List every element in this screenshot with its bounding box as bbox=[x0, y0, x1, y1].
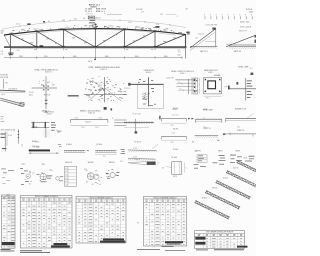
paper background bbox=[0, 0, 256, 256]
svg-text:X: X bbox=[177, 16, 178, 18]
JOIST GIRDER SCHEDULE FOR ROOF title rule bbox=[195, 232, 245, 234]
purlin clip detail title bbox=[171, 70, 194, 75]
svg-text:STRUT S1: STRUT S1 bbox=[203, 128, 210, 130]
TRUSS T-2 MEMBER SCHEDULE title rule bbox=[76, 198, 126, 200]
base plate outer plate bbox=[204, 78, 222, 94]
svg-text:2L: 2L bbox=[112, 118, 114, 120]
column cap lower marks bbox=[45, 100, 48, 104]
annotation text above truss right portion bbox=[136, 8, 189, 18]
svg-text:3/8 PL: 3/8 PL bbox=[1, 94, 6, 96]
left margin small dashes bbox=[1, 116, 5, 122]
knee brace left edge mark bbox=[228, 86, 230, 90]
TRUSS T-1 MEMBER SCHEDULE cell texts bbox=[22, 203, 71, 247]
truss web diagonals left half bbox=[10, 29, 95, 47]
nailer rail line bbox=[124, 121, 154, 123]
left support dark dimension text bbox=[8, 53, 13, 56]
joist summary note bbox=[196, 249, 244, 250]
svg-text:22'-0: 22'-0 bbox=[171, 125, 174, 127]
ridge apex gusset bbox=[212, 28, 216, 30]
camber value smudges left bbox=[62, 18, 85, 21]
note under title bbox=[89, 20, 95, 23]
svg-text:L3x3x1/4: L3x3x1/4 bbox=[198, 33, 204, 35]
svg-text:30'-0: 30'-0 bbox=[73, 56, 77, 58]
truss top chord bbox=[4, 29, 186, 35]
svg-text:25'-0: 25'-0 bbox=[44, 56, 48, 58]
column cap detail column line bbox=[45, 76, 47, 109]
JOIST GIRDER SCHEDULE FOR ROOF column lines bbox=[204, 233, 238, 248]
column base detail title bbox=[144, 69, 154, 74]
beam B5 end tick bbox=[225, 119, 227, 123]
svg-text:2 SP: 2 SP bbox=[141, 12, 144, 14]
heel joint mark scatter bbox=[85, 76, 126, 101]
svg-text:12'-6: 12'-6 bbox=[81, 127, 84, 129]
svg-text:2L3x3 TOP: 2L3x3 TOP bbox=[166, 77, 174, 79]
left end dimension stack bbox=[1, 51, 4, 55]
middle member schedule table bbox=[76, 197, 126, 244]
svg-text:T1: T1 bbox=[27, 223, 29, 225]
TRUSS T-1 MEMBER SCHEDULE outline bbox=[21, 196, 73, 249]
gusset strip leader bbox=[152, 144, 158, 149]
BOLT header rule bbox=[2, 198, 16, 200]
mini schedule box bbox=[65, 166, 77, 186]
TRUSS T-3 MEMBER SCHEDULE header texts bbox=[145, 200, 185, 202]
span dimension line bbox=[4, 57, 183, 59]
heel joint detail title bbox=[89, 66, 121, 71]
JOIST GIRDER SCHEDULE FOR ROOF cell texts bbox=[198, 238, 242, 247]
heel joint beam line bbox=[84, 94, 127, 96]
TRUSS T-1 MEMBER SCHEDULE row lines bbox=[21, 204, 73, 245]
svg-text:DET 6: DET 6 bbox=[173, 176, 177, 178]
joist bar 2 bbox=[205, 190, 241, 210]
svg-text:22 SP: 22 SP bbox=[133, 148, 137, 150]
purlin clip stacked lines bbox=[176, 80, 195, 90]
svg-text:TYP 4: TYP 4 bbox=[41, 164, 45, 166]
column cap detail label bbox=[42, 109, 49, 114]
notes above top chord bbox=[33, 26, 166, 32]
base plate left dimension stack bbox=[199, 79, 200, 91]
TRUSS T-2 MEMBER SCHEDULE outline bbox=[76, 197, 126, 244]
svg-text:2'-6: 2'-6 bbox=[17, 50, 20, 52]
ridge strut arrow bbox=[223, 133, 227, 135]
tie plate dimension arrows bbox=[29, 153, 59, 154]
seat detail right dashes bbox=[51, 122, 56, 131]
isometric brace end box bbox=[20, 103, 24, 106]
knee brace column line bbox=[245, 78, 247, 101]
upper right cluster of splice area bbox=[32, 126, 40, 148]
left margin note bbox=[0, 74, 8, 79]
left weld cluster B bbox=[37, 164, 53, 182]
weld W1 notes bbox=[84, 169, 97, 183]
leader line from title to right bbox=[104, 13, 122, 15]
svg-text:12'-6: 12'-6 bbox=[95, 127, 98, 129]
base plate side view ticks bbox=[191, 78, 193, 94]
truss web verticals bbox=[10, 29, 155, 47]
svg-text:STRUT S2: STRUT S2 bbox=[237, 130, 244, 132]
svg-text:3x3x1/4: 3x3x1/4 bbox=[33, 28, 39, 30]
column base bolt cluster bbox=[138, 79, 154, 92]
splice detail cleats bbox=[1, 134, 7, 150]
TRUSS T-1 MEMBER SCHEDULE title rule bbox=[21, 197, 73, 199]
JOIST GIRDER SCHEDULE FOR ROOF summary dark cell bbox=[195, 237, 205, 240]
column cap detail bolts bbox=[43, 86, 49, 91]
tie plate tick bbox=[21, 144, 23, 147]
svg-text:ARCH 22-0: ARCH 22-0 bbox=[89, 3, 101, 6]
TRUSS T-1 MEMBER SCHEDULE summary dark cell bbox=[54, 243, 68, 245]
svg-text:X X: X X bbox=[120, 161, 122, 163]
svg-text:6x6: 6x6 bbox=[217, 140, 220, 142]
truss top chord inner line bbox=[14, 30, 176, 36]
svg-text:L3: L3 bbox=[204, 118, 206, 120]
svg-text:5'-0: 5'-0 bbox=[156, 24, 159, 26]
svg-text:L3x3 x 0'-6: L3x3 x 0'-6 bbox=[172, 114, 179, 116]
svg-text:3 6 3: 3 6 3 bbox=[206, 98, 210, 100]
BOLT outline bbox=[2, 195, 16, 248]
svg-text:SECT 3-3: SECT 3-3 bbox=[234, 51, 241, 53]
angle stack detail bbox=[112, 118, 127, 126]
svg-text:8: 8 bbox=[216, 15, 217, 17]
plate strip P2 bbox=[64, 150, 85, 152]
isometric brace detail beam bbox=[0, 82, 25, 96]
camber arc tick marks bbox=[20, 19, 170, 27]
eave end detail sloped chord bbox=[226, 35, 256, 47]
seat detail shade wedge bbox=[56, 130, 62, 133]
ridge strut line bbox=[227, 133, 256, 137]
cluster C3 marks bbox=[230, 155, 242, 163]
svg-text:30'-0: 30'-0 bbox=[164, 56, 168, 58]
joist bar group bottom right bbox=[194, 158, 264, 220]
joist bar 3 bbox=[215, 180, 251, 200]
svg-text:x 22: x 22 bbox=[65, 184, 68, 186]
TRUSS T-1 MEMBER SCHEDULE header texts bbox=[22, 199, 71, 201]
svg-text:B2 W8: B2 W8 bbox=[173, 109, 178, 111]
svg-text:x 22: x 22 bbox=[65, 178, 68, 180]
svg-text:BOLTS 3/4: BOLTS 3/4 bbox=[0, 77, 8, 79]
row right edge marks bbox=[121, 149, 126, 154]
JOIST GIRDER SCHEDULE FOR ROOF summary dark cell bbox=[237, 246, 248, 248]
heel joint diagonals bbox=[88, 80, 121, 101]
right end dimension drop line bbox=[185, 47, 187, 59]
bolt list note bbox=[1, 249, 15, 251]
cluster C4 marks bbox=[245, 156, 255, 162]
weld arrow bar left of heel cluster bbox=[68, 95, 79, 96]
tie plate title texts bbox=[34, 147, 40, 149]
svg-text:8'-4: 8'-4 bbox=[103, 156, 106, 158]
svg-text:B4 W8: B4 W8 bbox=[203, 109, 208, 111]
JOIST GIRDER SCHEDULE FOR ROOF row lines bbox=[195, 240, 245, 246]
svg-text:6'-8: 6'-8 bbox=[178, 55, 181, 57]
right end gusset cluster bbox=[186, 32, 189, 35]
right weld cluster bbox=[56, 176, 64, 181]
svg-text:22'-6: 22'-6 bbox=[16, 24, 20, 26]
span dimension ticks bbox=[10, 56, 182, 58]
svg-text:TYP: TYP bbox=[95, 171, 98, 173]
plate strip P2 end arrow bbox=[86, 150, 88, 151]
plate strip P3 bbox=[95, 150, 116, 152]
svg-text:3x3: 3x3 bbox=[163, 30, 166, 32]
svg-text:1'-3: 1'-3 bbox=[1, 54, 4, 56]
column base hatch patch bbox=[142, 92, 150, 99]
svg-text:6: 6 bbox=[199, 84, 200, 86]
svg-text:X2: X2 bbox=[192, 142, 194, 144]
ridge end detail post bbox=[215, 29, 217, 47]
svg-text:PL 6x22: PL 6x22 bbox=[173, 149, 178, 151]
TRUSS T-3 MEMBER SCHEDULE title rule bbox=[144, 198, 187, 200]
svg-text:PL 3/8: PL 3/8 bbox=[29, 92, 33, 94]
TRUSS T-3 MEMBER SCHEDULE summary dark cell bbox=[165, 241, 183, 243]
svg-text:MK P2: MK P2 bbox=[218, 151, 223, 153]
svg-text:W12x19: W12x19 bbox=[85, 122, 91, 124]
svg-text:x 22: x 22 bbox=[65, 174, 68, 176]
left schedule notes below bbox=[20, 250, 50, 253]
svg-text:28LH 22: 28LH 22 bbox=[212, 188, 218, 190]
JOIST GIRDER SCHEDULE FOR ROOF header texts bbox=[198, 234, 243, 236]
TRUSS T-2 MEMBER SCHEDULE summary dark cell bbox=[100, 241, 125, 243]
svg-text:3: 3 bbox=[199, 79, 200, 81]
cluster C2 marks bbox=[213, 155, 226, 165]
left margin weld text scatter bbox=[1, 169, 14, 174]
dash continuation right of tie plate bbox=[58, 144, 62, 147]
BOLT row lines bbox=[2, 202, 16, 245]
gusset strip 2 bbox=[128, 158, 156, 160]
base plate left dim line bbox=[199, 78, 201, 94]
svg-text:PL 3/8x5: PL 3/8x5 bbox=[97, 144, 103, 146]
eave strut hatched bar bbox=[195, 136, 219, 138]
BOLT summary dark cell bbox=[2, 242, 15, 245]
truss bottom chord bbox=[4, 46, 187, 48]
svg-text:14'-0: 14'-0 bbox=[237, 126, 240, 128]
svg-text:SECT B-B: SECT B-B bbox=[239, 109, 246, 111]
weld circle W3 bbox=[110, 172, 115, 177]
svg-text:30'-0: 30'-0 bbox=[105, 56, 109, 58]
svg-text:L3x3: L3x3 bbox=[75, 117, 78, 119]
svg-text:TYP 3: TYP 3 bbox=[21, 164, 25, 166]
svg-text:PL 6x18: PL 6x18 bbox=[172, 157, 177, 159]
svg-text:W10: W10 bbox=[5, 82, 8, 84]
svg-text:5/16: 5/16 bbox=[195, 38, 198, 40]
truss left end diagonal bbox=[4, 35, 10, 47]
bent plate detail rect bbox=[172, 162, 182, 175]
svg-text:8: 8 bbox=[228, 15, 229, 17]
svg-text:B5 W8: B5 W8 bbox=[235, 108, 240, 110]
base plate HSS column section bbox=[208, 81, 216, 89]
plate strip P3 dim line bbox=[95, 154, 116, 156]
BOLT title rule bbox=[2, 196, 16, 198]
beam B1 dimension line bbox=[71, 124, 108, 126]
heel joint scale box bbox=[104, 107, 107, 110]
center dimension drop line bbox=[94, 47, 96, 60]
seat detail stem bbox=[45, 128, 47, 138]
svg-text:3'-4: 3'-4 bbox=[178, 49, 181, 51]
svg-text:x 22: x 22 bbox=[65, 171, 68, 173]
joist summary table bbox=[195, 231, 248, 249]
weld circle W1 bbox=[87, 173, 94, 180]
purlin spacing ticks top right bbox=[205, 16, 252, 19]
seat detail title bbox=[45, 112, 54, 116]
bolt column detail bbox=[18, 129, 19, 144]
span dimension texts bbox=[19, 56, 168, 58]
base plate plan title bbox=[204, 69, 218, 74]
beam detail B1 title bbox=[80, 110, 101, 115]
nailer rail right tick bbox=[159, 116, 160, 120]
svg-text:TC LL 1: TC LL 1 bbox=[85, 11, 93, 13]
svg-text:HSS 6x6: HSS 6x6 bbox=[44, 95, 50, 97]
bent plate right dim bbox=[185, 163, 187, 173]
purlin clip edge marks bbox=[194, 79, 196, 92]
TRUSS T-2 MEMBER SCHEDULE cell texts bbox=[78, 204, 124, 242]
joist bar 1 bbox=[194, 200, 230, 220]
svg-text:WELD B: WELD B bbox=[109, 162, 115, 164]
scattered annotation smudges above top chord bbox=[9, 25, 181, 33]
seat stubs below bottom chord bbox=[37, 48, 155, 50]
apex gusset cluster bbox=[92, 24, 97, 27]
svg-text:SECT 2-2: SECT 2-2 bbox=[200, 51, 207, 53]
weld W3 plus marks bbox=[106, 172, 119, 179]
column base column line bbox=[148, 77, 150, 106]
leader arrow above truss right bbox=[166, 13, 176, 15]
TRUSS T-2 MEMBER SCHEDULE header rule bbox=[76, 201, 126, 203]
svg-text:PL 1/2: PL 1/2 bbox=[126, 88, 130, 90]
apex vertical monument line bbox=[94, 23, 96, 28]
beam B2 line bbox=[161, 118, 186, 120]
eave end detail deck hatch bbox=[229, 47, 256, 49]
svg-text:22'-6: 22'-6 bbox=[128, 22, 132, 24]
TRUSS T-1 MEMBER SCHEDULE column lines bbox=[27, 198, 67, 248]
beam B4 line bbox=[196, 118, 222, 120]
beam B4 end ticks bbox=[196, 119, 222, 123]
knee brace left tick bbox=[236, 82, 238, 85]
column cap detail left notes bbox=[29, 92, 33, 96]
cluster C1 box rows bbox=[197, 155, 207, 163]
cluster C1 lower marks bbox=[194, 164, 207, 169]
beam B5 bottom flange bbox=[226, 120, 257, 122]
tie plate dark bar bbox=[29, 150, 50, 152]
svg-text:W8: W8 bbox=[52, 85, 54, 87]
svg-text:x 22: x 22 bbox=[65, 168, 68, 170]
BOLT column lines bbox=[7, 197, 11, 249]
splice marks on camber arc bbox=[27, 21, 159, 28]
svg-text:3/8: 3/8 bbox=[162, 167, 164, 169]
JOIST GIRDER SCHEDULE FOR ROOF summary dark cell bbox=[195, 242, 205, 245]
column base beam line bbox=[129, 83, 164, 85]
svg-text:PL 3/8x4: PL 3/8x4 bbox=[34, 147, 40, 149]
base plate anchor bolts bbox=[205, 79, 221, 92]
bottom strip marks below right schedule bbox=[137, 249, 185, 251]
svg-text:1/2 SLOPE PER: 1/2 SLOPE PER bbox=[206, 25, 219, 27]
upper note row above ridge detail bbox=[240, 21, 249, 24]
joist bar 4 bbox=[226, 170, 260, 189]
TRUSS T-3 MEMBER SCHEDULE column lines bbox=[150, 199, 182, 246]
gusset titles right bbox=[172, 149, 179, 159]
angle stack mark bbox=[111, 108, 113, 110]
svg-text:PL 3/8x5: PL 3/8x5 bbox=[66, 144, 72, 146]
svg-text:5 SP 20-0: 5 SP 20-0 bbox=[86, 14, 93, 16]
isometric brace diagonal bar bbox=[0, 98, 25, 107]
beam B3 end ticks bbox=[162, 137, 187, 140]
JOIST GIRDER SCHEDULE FOR ROOF header rule bbox=[195, 236, 245, 238]
TRUSS T-3 MEMBER SCHEDULE outline bbox=[144, 197, 187, 247]
nailer rail hanger vertical bbox=[135, 119, 137, 133]
splice detail post bbox=[5, 132, 7, 152]
column base left end plate bbox=[128, 83, 130, 86]
heel joint column line bbox=[104, 77, 106, 102]
TRUSS T-3 MEMBER SCHEDULE row lines bbox=[144, 206, 187, 243]
svg-text:T.O.S. +122'-6: T.O.S. +122'-6 bbox=[240, 27, 251, 29]
truss web diagonals right half bbox=[95, 29, 185, 47]
svg-text:SECTION 2-2: SECTION 2-2 bbox=[45, 112, 54, 114]
svg-text:3/16: 3/16 bbox=[84, 169, 87, 171]
svg-text:2'-6: 2'-6 bbox=[1, 51, 4, 53]
beam B1 notes bbox=[75, 117, 102, 123]
svg-text:20 SP: 20 SP bbox=[133, 157, 137, 159]
svg-text:24LH: 24LH bbox=[244, 158, 247, 160]
bottom chord splice plate bbox=[40, 45, 44, 46]
left weld cluster A bbox=[20, 164, 34, 185]
ridge end detail deck hatch bbox=[190, 46, 217, 48]
knee brace bracket marks bbox=[247, 80, 253, 98]
TRUSS T-2 MEMBER SCHEDULE column lines bbox=[83, 199, 121, 243]
JOIST GIRDER SCHEDULE FOR ROOF outline bbox=[195, 231, 245, 249]
BOLT cell texts bbox=[3, 200, 15, 247]
svg-text:L3x3: L3x3 bbox=[66, 27, 70, 29]
column cap detail beam line bbox=[32, 87, 57, 89]
column base bottom marks bbox=[143, 104, 156, 106]
svg-text:L3x3: L3x3 bbox=[99, 117, 102, 119]
TRUSS T-2 MEMBER SCHEDULE header texts bbox=[78, 200, 125, 202]
TRUSS T-3 MEMBER SCHEDULE cell texts bbox=[145, 204, 185, 245]
knee brace beam line bbox=[228, 88, 256, 90]
camber arc above truss bbox=[2, 20, 186, 29]
taper bar detail bbox=[128, 159, 159, 165]
eave detail edge marks bbox=[255, 35, 257, 43]
svg-text:PL 3/8 x 6: PL 3/8 x 6 bbox=[134, 142, 141, 144]
svg-text:22'-0: 22'-0 bbox=[171, 142, 174, 144]
nailer rail hanger foot bbox=[135, 131, 138, 133]
TRUSS T-2 MEMBER SCHEDULE row lines bbox=[76, 205, 126, 239]
svg-text:x 22: x 22 bbox=[65, 181, 68, 183]
right end dimension notes bbox=[178, 49, 181, 56]
svg-text:STIFF PL: STIFF PL bbox=[134, 159, 140, 161]
left member schedule table bbox=[21, 196, 73, 249]
nailer rail ticks bbox=[125, 121, 153, 124]
beam B3 line bbox=[162, 136, 187, 138]
seat detail end plates bbox=[33, 122, 46, 128]
svg-text:22-36: 22-36 bbox=[249, 11, 253, 13]
beam B3 dim line bbox=[162, 139, 187, 141]
gusset strip 1 bbox=[128, 150, 157, 152]
svg-text:3: 3 bbox=[199, 89, 200, 91]
purlin clip leaders bbox=[178, 81, 184, 91]
svg-text:26LH 20: 26LH 20 bbox=[233, 168, 239, 170]
base plate side view rect bbox=[193, 78, 198, 94]
svg-text:T3: T3 bbox=[137, 223, 139, 225]
beam B5 leader bbox=[246, 113, 254, 119]
mini schedule row texts bbox=[65, 168, 68, 187]
weld circle W1 inner marks bbox=[88, 173, 94, 179]
TRUSS T-3 MEMBER SCHEDULE header rule bbox=[144, 202, 187, 204]
svg-text:SPL 22: SPL 22 bbox=[95, 17, 100, 19]
seat stub smudges bbox=[34, 48, 153, 51]
bent plate leader and note bbox=[162, 167, 172, 170]
column cap detail title bbox=[35, 68, 59, 73]
web member label smudges bbox=[20, 35, 176, 44]
svg-text:26LH 20: 26LH 20 bbox=[223, 178, 229, 180]
drawing title block text bbox=[85, 3, 107, 15]
bolt list table bbox=[2, 195, 16, 248]
right member schedule table bbox=[144, 197, 187, 247]
svg-text:BTM LL 1: BTM LL 1 bbox=[96, 11, 105, 13]
svg-text:SC 1: SC 1 bbox=[250, 68, 253, 70]
seat detail hatched base bbox=[43, 130, 51, 138]
